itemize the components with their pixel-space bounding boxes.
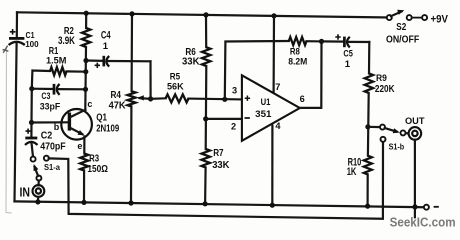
- jack IN: [20, 180, 45, 202]
- terminal: battery minus: [424, 205, 439, 210]
- svg-text:4: 4: [275, 121, 281, 131]
- svg-text:C4: C4: [101, 29, 111, 41]
- wire: feedback row: [225, 41, 322, 99]
- wire: S1-a throw to lower return run: [49, 142, 383, 219]
- wire: left rail upper: [16, 12, 18, 37]
- wire: C3 row: [32, 88, 86, 91]
- node: S1-b pole junction: [365, 124, 370, 129]
- svg-text:33K: 33K: [212, 159, 230, 171]
- wire: base wire to Q1: [32, 121, 69, 123]
- svg-text:e: e: [77, 141, 82, 151]
- resistor R7: [202, 148, 230, 171]
- resistor R2: [58, 26, 90, 47]
- svg-text:R7: R7: [213, 148, 224, 159]
- node: pin2 / R6-R7 junction: [203, 116, 208, 121]
- svg-text:IN: IN: [20, 185, 31, 200]
- resistor R1: [46, 45, 67, 75]
- switch S2: [386, 10, 427, 46]
- svg-text:U1: U1: [261, 97, 271, 107]
- wire: base branch vertical: [30, 89, 32, 123]
- node: C3 left junction: [29, 86, 34, 91]
- node: base tap junction: [29, 120, 34, 125]
- svg-text:C2: C2: [41, 130, 53, 141]
- svg-text:S1-b: S1-b: [389, 142, 405, 152]
- svg-text:220K: 220K: [375, 84, 395, 95]
- wire: R4 branch vertical: [131, 14, 132, 203]
- wire: C4 corner down to wiper node: [149, 61, 151, 99]
- wire: pin4 to ground: [271, 126, 273, 206]
- resistor R6: [182, 47, 210, 67]
- svg-text:351: 351: [255, 109, 271, 119]
- svg-text:3.9K: 3.9K: [58, 35, 75, 47]
- node: feedback / output junction: [319, 39, 324, 44]
- resistor R5: [166, 72, 189, 103]
- node: IN ground junction: [35, 199, 40, 204]
- node: R7 ground junction: [203, 201, 208, 206]
- resistor R3: [80, 153, 108, 175]
- svg-text:100: 100: [25, 39, 39, 49]
- svg-text:R9: R9: [376, 73, 387, 83]
- scan artifact: faint left fold line: [6, 48, 12, 213]
- wire: bottom ground rail: [15, 201, 424, 207]
- capacitor C4: [95, 29, 111, 68]
- resistor R8: [288, 37, 307, 68]
- node: R1 right junction: [83, 69, 88, 74]
- wire: pin3 row: [151, 98, 242, 99]
- wire: top +V rail: [17, 12, 389, 17]
- resistor R9: [365, 73, 395, 95]
- svg-text:Q1: Q1: [96, 112, 107, 123]
- node: R10 ground junction: [365, 204, 370, 209]
- capacitor C5: [322, 34, 370, 70]
- node: R4 wiper / R5 node: [148, 96, 153, 101]
- wire: left rail lower: [15, 43, 17, 202]
- svg-text:1: 1: [103, 41, 109, 52]
- svg-text:1: 1: [345, 59, 351, 70]
- svg-text:33K: 33K: [182, 56, 200, 67]
- svg-text:S1-a: S1-a: [44, 162, 60, 172]
- svg-text:7: 7: [275, 82, 280, 92]
- jack OUT: [405, 116, 425, 217]
- node: C4 row left junction: [83, 58, 88, 63]
- svg-text:R8: R8: [290, 46, 301, 57]
- wire: C4 row: [86, 59, 151, 62]
- capacitor C1: [9, 29, 39, 49]
- svg-text:S2: S2: [396, 22, 406, 33]
- node: R3 ground junction: [81, 200, 86, 205]
- op-amp U1: [231, 75, 305, 141]
- wire: R2 branch vertical: [84, 13, 87, 110]
- svg-text:c: c: [87, 99, 92, 109]
- capacitor C2: [25, 123, 66, 157]
- node: R6 top junction: [203, 12, 208, 17]
- svg-text:ON/OFF: ON/OFF: [386, 34, 420, 46]
- wire: pin2 row: [206, 118, 242, 120]
- node: C3 right junction: [83, 87, 88, 92]
- svg-text:3: 3: [232, 85, 237, 95]
- wiper arrow of R4: [140, 97, 151, 100]
- svg-text:1K: 1K: [347, 166, 357, 178]
- svg-text:+9V: +9V: [431, 13, 449, 25]
- svg-text:R4: R4: [111, 90, 122, 101]
- node: R4 branch ground junction: [128, 200, 133, 205]
- resistor R4 (rheostat): [109, 90, 136, 112]
- svg-text:C3: C3: [41, 91, 50, 102]
- svg-text:56K: 56K: [167, 81, 184, 92]
- svg-text:2: 2: [231, 122, 236, 132]
- svg-text:1.5M: 1.5M: [46, 56, 67, 67]
- svg-text:47K: 47K: [109, 101, 127, 112]
- transistor Q1: [54, 99, 120, 151]
- svg-text:150Ω: 150Ω: [87, 163, 108, 175]
- wire: R9/R10 branch vertical: [368, 42, 370, 206]
- node: OUT sleeve ground junction: [412, 204, 417, 209]
- svg-text:8.2M: 8.2M: [288, 57, 307, 68]
- svg-text:b: b: [54, 122, 60, 132]
- node: pin4 ground junction: [270, 203, 275, 208]
- switch S1-b: [368, 125, 406, 152]
- svg-text:33pF: 33pF: [40, 102, 61, 112]
- node: pin3 feedback junction: [222, 97, 227, 102]
- svg-text:C5: C5: [343, 48, 353, 59]
- wire: R6/R7 branch vertical: [205, 15, 206, 204]
- svg-text:470pF: 470pF: [40, 141, 65, 152]
- svg-text:SeekIC.com: SeekIC.com: [390, 215, 456, 230]
- resistor R10: [347, 156, 372, 179]
- svg-text:2N109: 2N109: [96, 123, 119, 134]
- wire: pin6 output to feedback node: [300, 41, 322, 108]
- svg-text:6: 6: [300, 94, 305, 104]
- wire: R1 row and left drop: [32, 71, 86, 89]
- switch S1-a: [31, 156, 61, 181]
- node: R2 top junction: [84, 11, 89, 16]
- capacitor C3: [40, 84, 61, 112]
- node: R4 branch top junction: [129, 11, 134, 16]
- node: pin7 top junction: [271, 13, 276, 18]
- svg-text:OUT: OUT: [405, 116, 425, 127]
- wire: emitter drop to ground: [83, 137, 86, 203]
- wire: op-amp pin7 to top rail: [273, 16, 276, 92]
